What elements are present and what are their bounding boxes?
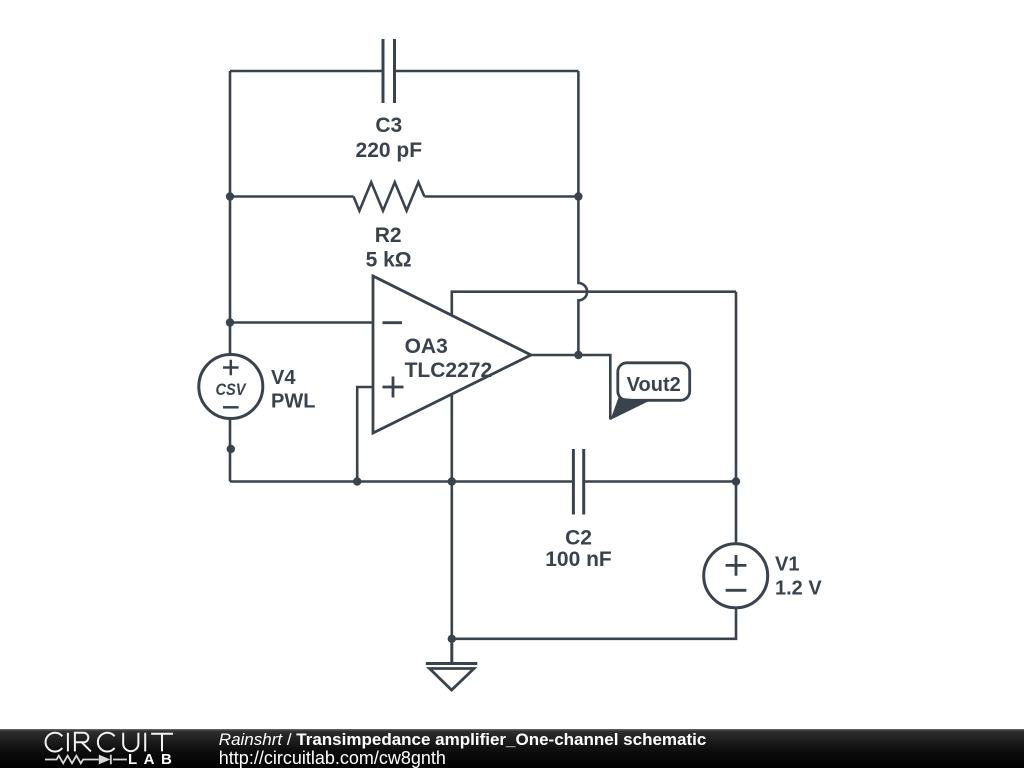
- svg-text:R2: R2: [375, 224, 402, 247]
- svg-text:5 kΩ: 5 kΩ: [366, 249, 412, 272]
- svg-text:CSV: CSV: [215, 381, 246, 399]
- svg-text:C2: C2: [565, 526, 592, 549]
- svg-text:TLC2272: TLC2272: [405, 359, 493, 382]
- svg-text:220 pF: 220 pF: [356, 139, 423, 162]
- svg-text:C3: C3: [375, 114, 402, 137]
- svg-text:Vout2: Vout2: [627, 374, 681, 396]
- svg-text:Rainshrt / Transimpedance ampl: Rainshrt / Transimpedance amplifier_One-…: [219, 730, 707, 749]
- svg-text:1.2 V: 1.2 V: [775, 577, 822, 599]
- svg-text:100 nF: 100 nF: [545, 548, 612, 571]
- svg-text:LAB: LAB: [128, 751, 178, 768]
- svg-text:http://circuitlab.com/cw8gnth: http://circuitlab.com/cw8gnth: [219, 748, 446, 768]
- svg-text:OA3: OA3: [405, 335, 448, 358]
- svg-text:PWL: PWL: [271, 391, 315, 413]
- svg-text:V1: V1: [775, 553, 799, 575]
- svg-text:V4: V4: [271, 367, 296, 389]
